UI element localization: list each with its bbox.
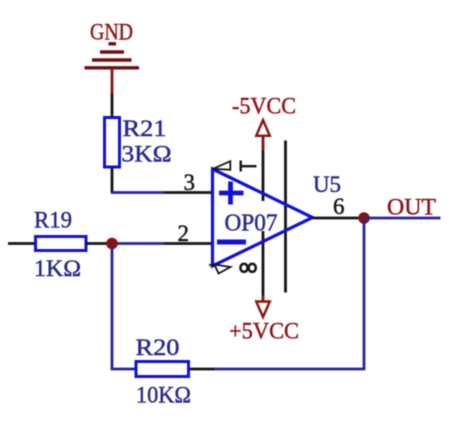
svg-text:1KΩ: 1KΩ [34, 256, 81, 281]
pin 1 mark (rotated digit) [241, 161, 257, 172]
svg-text:R21: R21 [123, 116, 167, 141]
resistor R20 [136, 362, 189, 377]
offset null pin vertical [284, 141, 287, 293]
pin 2 stub [164, 242, 213, 245]
wire: ground stem (red) [111, 70, 114, 94]
power arrow +5VCC [256, 302, 270, 318]
power pin V+ upper vertical [262, 151, 265, 202]
node A [106, 238, 118, 250]
op-amp U5 [213, 169, 313, 266]
pin: R21 bottom [111, 167, 114, 193]
resistor R19 [36, 237, 87, 251]
wire: feedback left (node A down and to R20) [112, 246, 136, 369]
wire: node A to pin 2 [114, 242, 164, 245]
wire: corner to pin 3 [111, 191, 164, 194]
pin: R21 top [111, 93, 114, 118]
svg-text:+5VCC: +5VCC [229, 319, 299, 344]
svg-text:10KΩ: 10KΩ [136, 383, 191, 408]
svg-text:2: 2 [178, 221, 190, 246]
svg-text:3KΩ: 3KΩ [122, 142, 172, 167]
top flag marker [213, 161, 230, 170]
svg-text:OP07: OP07 [225, 211, 278, 237]
svg-text:R20: R20 [136, 335, 180, 360]
svg-text:6: 6 [333, 194, 345, 219]
resistor R21 [105, 118, 120, 168]
wire: -5VCC stem [262, 136, 265, 151]
svg-text:GND: GND [90, 20, 133, 45]
bottom flag marker [209, 265, 231, 274]
wire: node B to OUT [364, 217, 441, 220]
wire: +5VCC stem [262, 296, 265, 302]
svg-text:-5VCC: -5VCC [232, 94, 296, 119]
plus input symbol [219, 182, 244, 205]
power pin V- lower vertical [262, 231, 265, 296]
node B [358, 212, 370, 224]
svg-text:R19: R19 [34, 208, 72, 233]
wire: input stub to R19 [8, 242, 36, 245]
pin 6 output stub [313, 217, 365, 220]
svg-text:OUT: OUT [387, 195, 436, 220]
pin 3 stub [164, 191, 213, 194]
pin: R20 right stub [189, 368, 215, 371]
wire: feedback right (node B down to R20) [213, 220, 364, 369]
ground [85, 44, 140, 68]
svg-text:3: 3 [184, 170, 196, 195]
minus input symbol [217, 240, 246, 245]
power arrow -5VCC [256, 120, 270, 136]
pin 8 mark (infinity) [240, 264, 255, 272]
wire: R19 to node A [86, 242, 108, 245]
